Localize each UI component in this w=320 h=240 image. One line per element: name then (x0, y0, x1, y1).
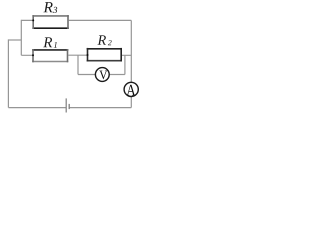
label R2 subscript 2 (108, 40, 112, 45)
wire: top branch horizontal (21, 19, 131, 21)
label R2 (97, 35, 106, 44)
ammeter A letter (126, 85, 135, 96)
wire: voltmeter left horizontal (78, 74, 96, 76)
label R1 subscript 1 (54, 42, 57, 48)
ammeter circle (124, 82, 138, 96)
node: wire joins R2 left (87, 54, 89, 56)
resistor R1 box (32, 49, 68, 62)
wire: voltmeter right vertical to R2 output node (124, 55, 126, 74)
wire: middle branch horizontal (21, 54, 131, 56)
wire: bottom horizontal (8, 107, 131, 109)
wire: inner left vertical junction (20, 20, 22, 56)
label R1 (43, 37, 52, 47)
resistor R2 box (87, 48, 122, 62)
voltmeter circle (95, 68, 109, 82)
resistor R3 box (32, 15, 68, 29)
voltmeter V letter (99, 71, 107, 80)
battery long plate (65, 98, 67, 112)
wire: left rail vertical (7, 39, 9, 107)
battery short plate (68, 104, 70, 109)
wire: left connector horizontal (8, 39, 21, 41)
wire: right rail vertical (130, 20, 132, 107)
label R3 subscript 3 (53, 7, 57, 13)
node: wire joins R1 left (32, 54, 34, 56)
wire: voltmeter right horizontal (109, 74, 125, 76)
node: wire joins R3 left (32, 19, 34, 21)
label R3 (43, 2, 52, 12)
wire: voltmeter tap vertical at R1-R2 node (77, 55, 79, 74)
